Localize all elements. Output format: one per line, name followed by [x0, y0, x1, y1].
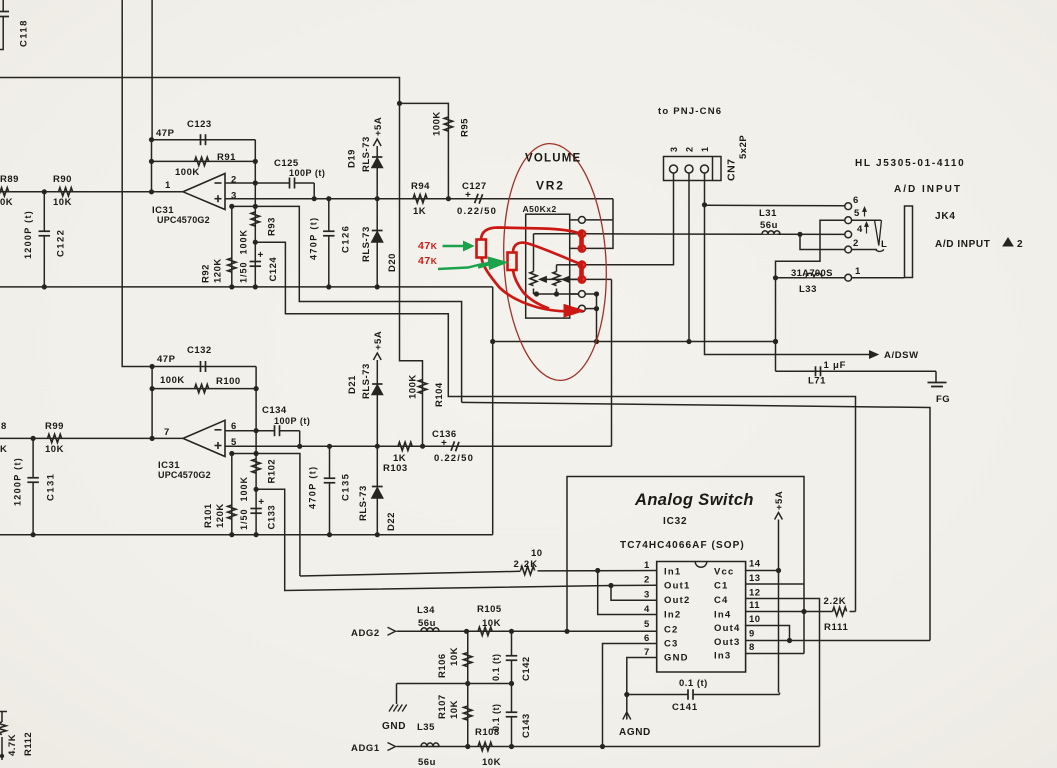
svg-text:RLS-73: RLS-73 [361, 363, 372, 399]
wire control C1-C2 tie (outer frame) [567, 477, 804, 654]
resistor R89 (partial) [0, 188, 9, 196]
annotation red wire B-bottom to arrow [513, 271, 549, 309]
svg-text:1: 1 [700, 146, 710, 152]
svg-text:56u: 56u [760, 220, 778, 231]
svg-text:R91: R91 [217, 152, 236, 163]
ground AGND [626, 695, 628, 720]
svg-text:+: + [441, 438, 447, 449]
capacitor 1uF / L71 [815, 366, 817, 376]
wire op-amp2 pin6 row with C134 [225, 430, 275, 432]
VR2 common bus [493, 341, 776, 343]
annotation red wire A-top to terminals 2-3 [481, 228, 580, 241]
svg-text:2: 2 [1017, 239, 1023, 250]
capacitor C122 [43, 192, 45, 231]
svg-text:R95: R95 [460, 118, 471, 137]
capacitor C143 [511, 684, 513, 713]
svg-text:Out3: Out3 [714, 637, 740, 648]
wire op-amp1 pin3 main row [225, 198, 613, 200]
svg-text:3: 3 [644, 590, 650, 601]
svg-text:C2: C2 [664, 625, 679, 636]
node C122 junction [42, 189, 47, 194]
svg-text:1: 1 [165, 180, 171, 191]
ground FG [935, 371, 937, 382]
svg-text:1: 1 [855, 266, 861, 277]
svg-text:C1: C1 [714, 581, 729, 592]
svg-text:A/D INPUT: A/D INPUT [894, 184, 962, 195]
annotation green arrow 1 [443, 245, 466, 247]
svg-text:FG: FG [936, 394, 950, 405]
inductor L33 [776, 277, 807, 279]
svg-text:IC32: IC32 [663, 516, 687, 527]
svg-text:+5A: +5A [373, 117, 384, 136]
resistor R91 [195, 157, 209, 165]
svg-text:CN7: CN7 [726, 158, 738, 181]
svg-text:2: 2 [853, 238, 859, 249]
upper main signal line (op-amp 1 output row) [0, 191, 183, 193]
svg-text:+: + [258, 497, 264, 508]
svg-text:R99: R99 [45, 421, 64, 432]
svg-text:In3: In3 [714, 651, 731, 662]
wire IC32 pin1 In1 row with 2.2K [300, 571, 521, 576]
VR2 wiper arrows [546, 278, 579, 280]
svg-text:R89: R89 [0, 174, 19, 185]
resistor R108 [478, 742, 492, 750]
diode D19 with +5A [376, 168, 378, 199]
inductor L34 [421, 628, 439, 632]
resistor R112 partial bottom-left [0, 711, 7, 713]
VR2 pot element 2 [556, 265, 558, 272]
svg-text:8: 8 [749, 642, 755, 653]
svg-text:+5A: +5A [373, 331, 384, 350]
svg-text:+: + [465, 190, 471, 201]
annotation red arrow at terminal 7 [564, 305, 584, 318]
svg-text:2.2K: 2.2K [514, 559, 539, 570]
svg-text:ADG1: ADG1 [351, 743, 380, 754]
capacitor C124 electrolytic [250, 261, 261, 263]
svg-text:31A700S: 31A700S [791, 268, 833, 279]
wire IC32 pin7 GND row to AGND/C141 [627, 658, 657, 695]
inductor L35 [421, 743, 439, 747]
svg-text:0.22/50: 0.22/50 [457, 206, 497, 217]
svg-text:6: 6 [644, 633, 650, 644]
svg-text:HL J5305-01-4110: HL J5305-01-4110 [855, 158, 965, 169]
svg-text:47P: 47P [156, 128, 175, 139]
svg-text:2.2K: 2.2K [824, 596, 847, 607]
resistor R111 [833, 607, 847, 615]
wire long vertical from top-left area down to lower 47P corner [122, 0, 152, 367]
feedback vertical with 1/50 100K and C133 [255, 367, 257, 535]
svg-text:0K: 0K [0, 197, 13, 208]
svg-text:R111: R111 [824, 622, 848, 633]
svg-text:6: 6 [853, 195, 859, 206]
svg-text:R90: R90 [53, 174, 72, 185]
resistor R103 [398, 442, 412, 450]
capacitor C118 (partial, top-left) [0, 11, 9, 13]
resistor R101 on lower box left edge [231, 454, 233, 535]
wire VR2 terminal 2 to L31 [585, 233, 762, 236]
svg-text:R112: R112 [23, 732, 34, 756]
capacitor C136 electrolytic [451, 441, 455, 451]
capacitor C126 branch [328, 199, 330, 231]
svg-text:L34: L34 [417, 605, 435, 616]
svg-text:3: 3 [231, 191, 237, 202]
svg-text:2: 2 [231, 175, 237, 186]
svg-text:R100: R100 [216, 376, 241, 387]
svg-text:VOLUME: VOLUME [525, 153, 581, 165]
svg-text:L71: L71 [808, 376, 826, 387]
svg-text:10: 10 [531, 548, 543, 559]
svg-text:AGND: AGND [619, 727, 651, 738]
wire VR2 t2 inside box [534, 233, 571, 235]
box around 1/50 100K C124 (upper bias block) [232, 206, 462, 402]
resistor R99 [48, 434, 62, 442]
wire IC32 pin12 C4 row [746, 599, 820, 747]
svg-text:D22: D22 [386, 512, 397, 531]
svg-text:R105: R105 [477, 604, 502, 615]
wire IC32 pin8 In3 row [746, 653, 804, 655]
svg-text:RLS-73: RLS-73 [358, 485, 369, 521]
wire vertical into upper 47P node [151, 0, 153, 140]
svg-text:C141: C141 [672, 702, 698, 713]
svg-text:4.7K: 4.7K [7, 734, 18, 756]
capacitor C134 [274, 425, 276, 436]
resistor R92 on box left edge [231, 206, 233, 287]
svg-text:4: 4 [644, 604, 650, 615]
svg-text:K: K [0, 444, 7, 455]
svg-text:Analog Switch: Analog Switch [634, 491, 754, 509]
svg-text:ADG2: ADG2 [351, 628, 380, 639]
svg-text:Out2: Out2 [664, 595, 690, 606]
wire op-amp1 pin2 row with C125 [225, 182, 255, 184]
svg-text:11: 11 [749, 600, 760, 611]
svg-text:47K: 47K [418, 255, 438, 267]
box around lower bias block [232, 454, 300, 577]
node +5A junction [397, 101, 402, 106]
svg-text:C124: C124 [268, 257, 279, 282]
wire 47P/C132 row [152, 366, 256, 368]
svg-text:C123: C123 [187, 119, 212, 130]
capacitor C132 [200, 361, 202, 372]
svg-text:C135: C135 [341, 473, 352, 501]
wire CN7 pin1 to JK4 tip contact [705, 204, 845, 206]
svg-text:In4: In4 [714, 610, 731, 621]
JK4 switch contact [852, 219, 881, 221]
wire IC32 pin11 In4 row / R111 [746, 611, 833, 613]
wire bus riser to VR2 common [492, 287, 494, 535]
svg-text:C143: C143 [521, 713, 532, 738]
svg-text:C118: C118 [19, 19, 30, 47]
wire line-P continuation to pin9 Out3 [462, 402, 930, 640]
svg-text:L31: L31 [759, 208, 777, 219]
wire line-B from C133 node to IC32 Out1 [256, 489, 657, 600]
svg-text:10K: 10K [482, 618, 501, 629]
wire op-amp2 pin5 main row [225, 445, 612, 447]
svg-text:5: 5 [644, 619, 650, 630]
op-amp U1A IC31 triangle [183, 174, 225, 210]
resistor R107 [467, 684, 469, 747]
svg-text:R104: R104 [434, 382, 445, 407]
svg-text:10K: 10K [482, 757, 501, 768]
svg-text:100P (t): 100P (t) [274, 416, 310, 426]
annotation red wire A-bottom to arrow [482, 258, 567, 311]
svg-text:100K: 100K [175, 167, 200, 178]
wire +5A to Vcc pin14 and C141 [778, 520, 780, 693]
resistor R95 [444, 117, 452, 131]
svg-text:10: 10 [749, 614, 761, 625]
svg-text:14: 14 [749, 559, 761, 570]
VR2 pot element 1 [533, 234, 535, 272]
svg-text:R93: R93 [267, 217, 278, 236]
svg-text:C4: C4 [714, 595, 729, 606]
svg-text:C126: C126 [341, 225, 352, 253]
svg-text:47K: 47K [418, 240, 438, 252]
wire GND row [397, 683, 512, 685]
wire top line to VR2 terminals 1/3 [585, 199, 613, 249]
capacitor C141 row [627, 694, 688, 696]
svg-text:C133: C133 [267, 505, 278, 530]
svg-text:R101: R101 [203, 503, 214, 528]
wire L31 to JK4 pin4 [778, 233, 845, 235]
feedback node column op-amp2 [151, 367, 153, 439]
svg-text:9: 9 [749, 629, 755, 640]
svg-text:470P (t): 470P (t) [309, 216, 319, 260]
svg-text:4: 4 [857, 224, 863, 235]
svg-text:L35: L35 [417, 722, 435, 733]
wire IC32 pin4 In2 row [598, 571, 657, 615]
wire IC32 pin6 C3 row [603, 644, 657, 747]
svg-text:C131: C131 [46, 473, 57, 501]
svg-text:to PNJ-CN6: to PNJ-CN6 [658, 106, 722, 117]
svg-text:5x2P: 5x2P [738, 135, 749, 159]
VR2 terminal stubs and circles [571, 219, 579, 221]
svg-text:10K: 10K [449, 647, 460, 666]
svg-text:1200P (t): 1200P (t) [23, 210, 33, 259]
svg-text:13: 13 [749, 573, 761, 584]
wire JK4 pin5 loop [776, 220, 845, 371]
wire R91 row [152, 160, 256, 162]
svg-text:Out4: Out4 [714, 623, 740, 634]
resistor R104 [418, 380, 426, 394]
wire junction down to JK4 pin2 [800, 234, 845, 249]
capacitor C142 [511, 631, 513, 655]
capacitor C127 electrolytic [475, 194, 479, 204]
svg-text:R103: R103 [383, 463, 408, 474]
annotation red rings on terminals [579, 230, 586, 237]
svg-text:0.1 (t): 0.1 (t) [491, 653, 501, 681]
annotation red bar terminals 4-5 [579, 262, 584, 283]
wire R100 row [152, 388, 256, 390]
capacitor C123 [200, 134, 202, 145]
connector CN7 body [664, 157, 722, 181]
svg-text:+: + [258, 250, 264, 261]
svg-text:1/50 100K: 1/50 100K [239, 476, 249, 530]
svg-text:1200P (t): 1200P (t) [13, 457, 23, 506]
wire IC32 pin9 Out3 row [746, 640, 930, 642]
wire IC32 pin2 Out1 dot [608, 583, 613, 588]
svg-text:C132: C132 [187, 345, 212, 356]
lower main signal line (op-amp 2 output row) [0, 437, 183, 439]
resistor 100K (bias upper) [251, 212, 259, 226]
svg-text:0.22/50: 0.22/50 [434, 453, 474, 464]
svg-text:D20: D20 [387, 253, 398, 272]
resistor R106 [467, 631, 469, 683]
connector CN7 pin circles [670, 165, 678, 173]
capacitor C135 branch [329, 446, 331, 478]
svg-text:1 μF: 1 μF [824, 360, 847, 371]
svg-text:A50Kx2: A50Kx2 [523, 204, 557, 214]
resistor R94 [413, 195, 427, 203]
svg-text:0.1 (t): 0.1 (t) [679, 678, 708, 689]
svg-text:7: 7 [644, 647, 650, 658]
svg-text:L33: L33 [799, 284, 817, 295]
ground GND symbol [396, 684, 398, 705]
feedback vertical x=255 with 1/50 100K and C124 [254, 140, 256, 287]
wire CN7 pin2 down to common bus [688, 173, 690, 342]
svg-text:R107: R107 [437, 694, 448, 719]
svg-text:8: 8 [1, 421, 7, 432]
svg-text:7: 7 [164, 427, 170, 438]
resistor R100 [195, 384, 209, 392]
wire VR2 terminals 6,7 to common [585, 293, 596, 295]
svg-text:1/50 100K: 1/50 100K [239, 229, 249, 283]
svg-text:RLS-73: RLS-73 [361, 226, 372, 262]
svg-text:47P: 47P [157, 354, 176, 365]
wire JK4 loop to 1uF line [776, 370, 937, 372]
svg-text:JK4: JK4 [935, 211, 956, 222]
svg-text:GND: GND [664, 653, 689, 664]
svg-text:UPC4570G2: UPC4570G2 [158, 470, 211, 480]
svg-text:TC74HC4066AF (SOP): TC74HC4066AF (SOP) [620, 540, 745, 551]
svg-text:10K: 10K [449, 700, 460, 719]
svg-text:2: 2 [685, 146, 695, 152]
svg-text:C122: C122 [56, 229, 67, 257]
svg-text:In1: In1 [664, 567, 681, 578]
svg-text:D21: D21 [347, 375, 358, 394]
annotation red resistor A [477, 240, 487, 258]
resistor R90 [59, 188, 73, 196]
annotation red bar terminals 2-3 [579, 232, 584, 253]
svg-text:In2: In2 [664, 610, 681, 621]
wire line-Q from C124 node to R111 (staircase) [255, 242, 855, 611]
JK4 pin5 arrow [864, 209, 866, 217]
capacitor C133 electrolytic [250, 508, 261, 510]
svg-text:D19: D19 [347, 149, 358, 168]
svg-text:Vcc: Vcc [714, 567, 735, 578]
wire VR2 t4 inside box [557, 264, 571, 266]
feedback node column op-amp1 [151, 140, 153, 192]
svg-text:100P (t): 100P (t) [289, 168, 325, 178]
svg-text:2: 2 [644, 575, 650, 586]
annotation red resistor B [508, 253, 517, 271]
svg-text:R102: R102 [267, 459, 278, 484]
wire IC32 pin5 C2 row (ADG2 line) [397, 630, 657, 632]
svg-text:5: 5 [854, 208, 860, 219]
svg-text:56u: 56u [418, 618, 436, 629]
svg-text:R94: R94 [411, 181, 430, 192]
svg-text:L: L [881, 239, 887, 250]
svg-text:100K: 100K [408, 374, 419, 399]
svg-text:RLS-73: RLS-73 [361, 136, 372, 172]
svg-text:C134: C134 [262, 405, 287, 416]
svg-text:A/D INPUT: A/D INPUT [935, 239, 990, 250]
wire to R95 [400, 103, 449, 198]
resistor 100K (bias lower) [252, 459, 260, 473]
annotation red ellipse around VR2 [498, 141, 612, 383]
capacitor C125 [289, 178, 291, 189]
VR2 pot bottoms join [533, 289, 535, 295]
wire VR2 terminal 4 to CN7 pin3 [585, 173, 673, 265]
JK4 body bar [905, 206, 913, 278]
svg-text:GND: GND [382, 721, 406, 732]
svg-text:10K: 10K [45, 444, 64, 455]
svg-text:C142: C142 [521, 656, 532, 681]
upper ground bus [0, 286, 493, 288]
wire IC32 pin10 Out4 jog to pin9 [746, 626, 790, 641]
svg-text:1K: 1K [413, 206, 426, 217]
svg-text:UPC4570G2: UPC4570G2 [157, 215, 210, 225]
inductor L31 [762, 231, 780, 235]
svg-text:R92: R92 [201, 264, 212, 283]
svg-text:120K: 120K [213, 258, 224, 283]
svg-text:1: 1 [644, 560, 650, 571]
svg-text:100K: 100K [432, 111, 443, 136]
diode D21 with +5A [376, 395, 378, 446]
JK4 pin4 arrow [866, 224, 868, 234]
wire VR2 terminal 5 to riser [585, 278, 611, 280]
diode D22 [376, 446, 378, 535]
svg-text:10K: 10K [53, 197, 72, 208]
diode D20 [376, 199, 378, 287]
resistor R105 [478, 627, 492, 635]
wire top horizontal to +5A node [0, 78, 423, 447]
svg-text:Out1: Out1 [664, 581, 690, 592]
arrow A/DSW [870, 351, 879, 358]
svg-text:R106: R106 [437, 653, 448, 678]
svg-text:470P (t): 470P (t) [308, 465, 318, 509]
lower ground bus [0, 534, 493, 536]
svg-text:120K: 120K [215, 503, 226, 528]
svg-text:3: 3 [669, 146, 679, 152]
potentiometer VR2 box [526, 214, 570, 318]
wire IC32 pin14 Vcc row [746, 570, 779, 572]
wire CN7 pin1 down / A-DSW [705, 173, 871, 355]
IC IC32 body [657, 562, 746, 673]
annotation red wire B-top to terminals 4-5 [513, 243, 579, 264]
node C131 junction [30, 436, 35, 441]
svg-text:56u: 56u [418, 757, 436, 768]
wire IC32 pin13 C1 row [746, 583, 804, 585]
svg-text:C3: C3 [664, 639, 679, 650]
svg-text:+5A: +5A [774, 491, 785, 510]
wire pin5 row riser to VR2 wiper2 [611, 279, 613, 446]
capacitor C131 [32, 438, 34, 477]
svg-text:A/DSW: A/DSW [884, 350, 919, 361]
connector JK4 circles [845, 203, 852, 210]
svg-text:R108: R108 [475, 727, 500, 738]
svg-text:100K: 100K [160, 375, 185, 386]
op-amp U1B IC31 triangle [183, 420, 225, 456]
svg-text:12: 12 [749, 588, 761, 599]
annotation green arrow 2 [438, 264, 484, 270]
wire 47P/C123 row [152, 139, 256, 141]
svg-text:VR2: VR2 [536, 179, 565, 193]
